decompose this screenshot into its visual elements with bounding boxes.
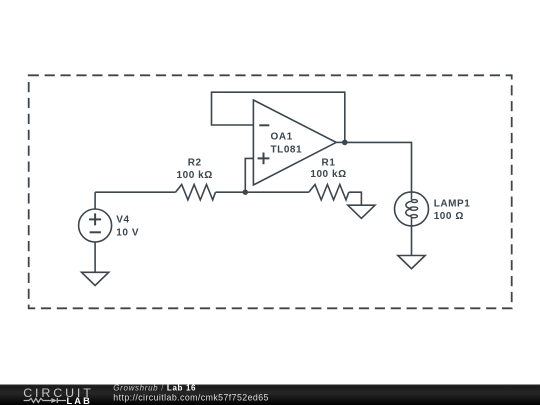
resistor R1 (309, 185, 349, 200)
voltage source V4 plus symbol (89, 213, 101, 225)
schematic dashed border (29, 75, 512, 308)
resistor R2 (176, 185, 216, 200)
CircuitLab logo resistor-diode glyph (24, 398, 66, 403)
svg-text:100 kΩ: 100 kΩ (310, 169, 346, 180)
voltage source V4 circle (79, 209, 112, 242)
wire op-amp output to node B (336, 141, 345, 143)
svg-text:OA1: OA1 (271, 132, 293, 143)
lamp LAMP1 envelope circle (395, 192, 429, 226)
svg-text:Growshrub / Lab 16: Growshrub / Lab 16 (113, 384, 196, 393)
voltage source V4 minus symbol (90, 231, 101, 233)
wire R2 to R1 through node A (216, 191, 309, 193)
svg-text:LAB: LAB (67, 396, 92, 405)
wire R1 to ground (349, 192, 362, 205)
svg-text:R2: R2 (188, 158, 202, 169)
op-amp inverting input minus symbol (259, 124, 269, 126)
op-amp OA1 triangle (253, 100, 336, 185)
ground (R1) (348, 205, 375, 218)
svg-text:100 kΩ: 100 kΩ (177, 170, 213, 181)
wire main horizontal V4 to R2 (95, 191, 175, 193)
ground (V4) (82, 272, 109, 285)
svg-text:http://circuitlab.com/cmk57f75: http://circuitlab.com/cmk57f752ed65 (113, 392, 269, 402)
svg-text:LAMP1: LAMP1 (434, 199, 471, 210)
wire output node to lamp (345, 142, 412, 192)
svg-text:10 V: 10 V (116, 228, 139, 239)
wire lamp to ground (411, 226, 413, 256)
wire op-amp non-inverting input (245, 158, 253, 192)
wire V4 top lead (94, 192, 96, 209)
op-amp non-inverting input plus symbol (258, 153, 270, 165)
node B output junction dot (342, 140, 348, 146)
svg-text:TL081: TL081 (271, 145, 303, 156)
wire V4 bottom lead (94, 242, 96, 272)
svg-text:100 Ω: 100 Ω (434, 211, 464, 222)
svg-text:R1: R1 (322, 158, 336, 169)
node A junction dot (243, 190, 248, 195)
svg-text:V4: V4 (116, 215, 129, 226)
lamp LAMP1 filament coil (406, 192, 412, 226)
ground (LAMP1) (398, 256, 425, 269)
wire feedback loop output to inverting input (212, 92, 345, 142)
